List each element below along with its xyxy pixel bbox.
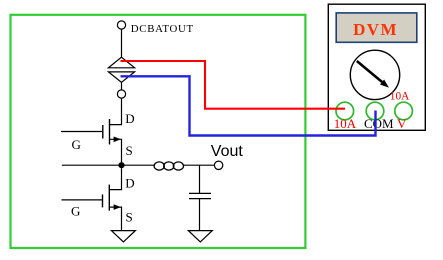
svg-text:Vout: Vout	[211, 143, 244, 160]
svg-text:S: S	[126, 210, 133, 225]
DVM display panel	[336, 13, 417, 42]
svg-text:D: D	[125, 111, 134, 126]
transistor Q1 channel	[109, 119, 111, 145]
terminal DCBATOUT	[117, 21, 125, 29]
capacitor C1 top plate	[189, 192, 211, 194]
wire probe to node circle	[121, 82, 123, 90]
current probe upper triangle	[108, 57, 134, 68]
DVM terminal COM	[366, 102, 384, 120]
DVM needle	[357, 61, 382, 82]
Q2 source arrowhead	[114, 204, 121, 210]
DVM terminal 10A	[336, 102, 354, 120]
wire inductor to Vout terminal	[183, 164, 214, 166]
wire capacitor to ground	[199, 199, 201, 231]
wire Vout node to capacitor	[199, 165, 201, 193]
wire junction to Q2 drain	[109, 168, 121, 189]
svg-text:10A: 10A	[390, 91, 410, 103]
node circle	[117, 90, 125, 98]
wire Q2 gate lead	[62, 199, 102, 201]
wire Q1 gate lead	[61, 131, 102, 133]
DVM needle arrowhead	[380, 80, 389, 88]
wire Q1 source lead with arrow	[110, 139, 122, 162]
svg-text:DCBATOUT: DCBATOUT	[131, 23, 194, 35]
transistor Q2 gate bar	[102, 194, 104, 207]
inductor L1	[154, 162, 183, 170]
red test lead probe-top to 10A terminal	[121, 61, 346, 109]
wire node circle to Q1 drain	[110, 98, 122, 124]
transistor Q2 channel	[108, 185, 110, 211]
transistor Q1 gate bar	[102, 125, 104, 139]
svg-text:G: G	[71, 204, 80, 219]
capacitor C1 bottom plate	[189, 198, 211, 200]
DVM terminal V	[395, 102, 413, 120]
Q1 source arrowhead	[114, 137, 121, 143]
schematic boundary box (green)	[11, 15, 306, 248]
wire Q2 source lead with arrow	[109, 207, 121, 230]
svg-text:G: G	[72, 137, 81, 152]
ground (Q2 source)	[111, 231, 135, 242]
DVM dial	[350, 50, 399, 99]
junction dot switch node	[118, 162, 124, 168]
svg-text:V: V	[397, 116, 407, 131]
svg-text:COM: COM	[364, 116, 394, 131]
svg-text:DVM: DVM	[353, 20, 398, 39]
svg-text:S: S	[126, 143, 133, 158]
svg-text:10A: 10A	[334, 116, 357, 131]
ground (capacitor)	[188, 231, 212, 242]
current probe lower triangle	[108, 72, 134, 82]
wire switch-node rail left	[62, 164, 155, 166]
DVM instrument body	[328, 4, 425, 130]
svg-text:D: D	[125, 176, 134, 191]
blue test lead probe-bottom to COM terminal	[121, 76, 376, 135]
terminal Vout	[214, 161, 222, 169]
wire terminal to current probe	[121, 29, 123, 57]
